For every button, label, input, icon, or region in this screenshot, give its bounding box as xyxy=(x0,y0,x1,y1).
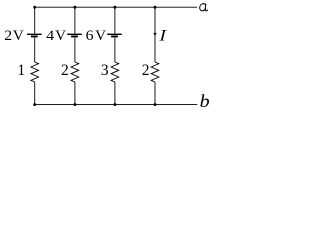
wire branch1 middle xyxy=(34,38,36,62)
wire branch1 top xyxy=(34,7,36,33)
wire top rail node a xyxy=(35,6,198,8)
resistor R3 xyxy=(111,62,119,82)
svg-text:2: 2 xyxy=(61,62,69,79)
node a label xyxy=(200,4,208,11)
resistor R4 xyxy=(151,62,159,82)
junction dot bottom branch4 xyxy=(154,103,157,106)
battery V1 xyxy=(27,34,42,36)
svg-text:4: 4 xyxy=(46,28,54,44)
svg-text:V: V xyxy=(55,28,67,44)
svg-text:3: 3 xyxy=(101,62,109,79)
svg-text:6: 6 xyxy=(86,28,94,44)
junction dot bottom branch3 xyxy=(113,103,116,106)
wire branch2 middle xyxy=(74,38,76,62)
svg-text:2: 2 xyxy=(4,28,12,44)
junction dot top branch4 xyxy=(154,6,157,9)
resistor R1 xyxy=(31,62,39,82)
wire branch2 bottom xyxy=(74,82,76,105)
wire branch1 bottom xyxy=(34,82,36,105)
junction dot bottom branch1 xyxy=(33,103,36,106)
svg-text:2: 2 xyxy=(142,62,150,79)
resistor R2 xyxy=(71,62,79,82)
wire branch3 middle xyxy=(114,38,116,62)
wire bottom rail node b xyxy=(35,104,198,106)
battery V3 xyxy=(107,34,122,36)
wire branch3 top xyxy=(114,7,116,33)
wire branch4 top xyxy=(154,7,156,62)
wire branch4 bottom xyxy=(154,82,156,105)
wire branch2 top xyxy=(74,7,76,33)
junction dot top branch2 xyxy=(73,6,76,9)
svg-text:V: V xyxy=(13,28,25,44)
svg-text:b: b xyxy=(200,91,210,111)
wire branch3 bottom xyxy=(114,82,116,105)
junction dot top branch1 xyxy=(33,6,36,9)
current arrow I xyxy=(153,33,157,37)
svg-text:1: 1 xyxy=(17,62,25,79)
junction dot bottom branch2 xyxy=(73,103,76,106)
battery V2 xyxy=(67,34,82,36)
svg-text:V: V xyxy=(95,28,107,44)
junction dot top branch3 xyxy=(113,6,116,9)
